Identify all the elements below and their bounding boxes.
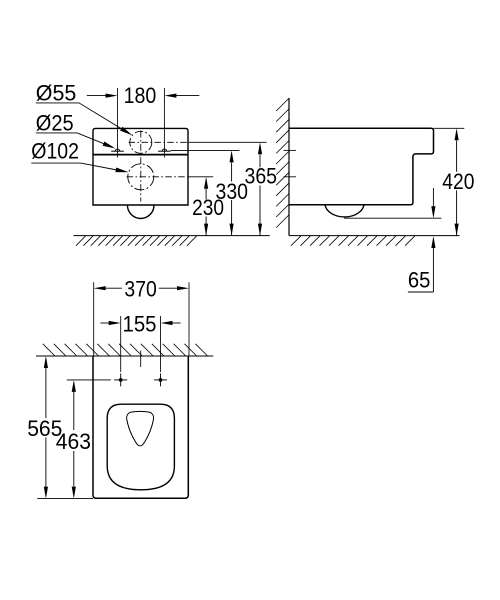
extension line left bolt (for 180) [117, 88, 119, 158]
extension line left bolt (155) [120, 316, 122, 372]
outlet bump (bottom arc) [127, 205, 154, 218]
reference line at bolts (463) [67, 379, 111, 381]
label Ø102 leader arrowhead [115, 168, 128, 173]
outlet height tick on wall [284, 176, 297, 178]
dimension 65 up arrow from below floor + leader [408, 248, 434, 292]
dimension 65 down arrow to outlet tangent [432, 188, 434, 206]
svg-text:Ø25: Ø25 [36, 111, 74, 136]
fixing bolt left (plan) [114, 373, 127, 386]
dimension 180 line right segment [176, 95, 199, 97]
outlet bottom tangent line (65 reference) [344, 217, 441, 219]
fixing bolt right (top view) [158, 149, 171, 151]
flush inlet (teardrop, plan) [127, 411, 154, 446]
dimension 370 line with outward arrows [106, 287, 177, 289]
svg-text:Ø55: Ø55 [36, 80, 77, 105]
WC body profile (side view) [289, 128, 434, 204]
floor line (left view) [73, 235, 269, 237]
reference line at bolt height (330) [171, 149, 240, 151]
dimension 365 vertical line with arrows [259, 155, 261, 236]
reference line at Ø102 centre height (230) [188, 176, 213, 178]
extension line right bolt (for 180) [163, 88, 165, 158]
dimension 230 down arrow at floor [204, 224, 208, 236]
dimension 230 vertical line upper part with up arrow [205, 189, 207, 236]
label Ø25 leader [36, 133, 105, 144]
fixing bolt left (top view) [111, 149, 124, 151]
svg-text:330: 330 [216, 179, 249, 204]
dimension 180 arrow right [164, 94, 176, 98]
fixing bolt right (plan) [154, 373, 167, 386]
label Ø55 leader (underline + slanted line) [36, 103, 124, 130]
dimension 420 vertical line with arrows [456, 141, 458, 236]
svg-text:155: 155 [123, 312, 157, 337]
centre tick at wall [140, 351, 142, 368]
floor hatching (left view) [76, 236, 197, 246]
floor hatching (right view) [291, 236, 415, 246]
WC body outline (top view) [93, 128, 188, 205]
wall hatching [276, 98, 289, 228]
rim/cistern divider line [93, 154, 188, 156]
dimension 330 vertical line with arrows [231, 163, 233, 236]
label Ø102 leader [31, 163, 117, 170]
wall face line [288, 98, 290, 236]
outlet bump (side view) [325, 205, 364, 217]
svg-text:180: 180 [124, 83, 157, 108]
floor line (right view) [289, 235, 460, 237]
supply height tick on wall [284, 149, 297, 151]
dimension 463 vertical line with arrows [73, 392, 75, 487]
extension line right bolt (155) [160, 316, 162, 372]
bowl outer rim (plan) [107, 404, 174, 490]
Ø55 centerline horizontal [129, 141, 188, 143]
dimension 155 outside arrows [100, 322, 180, 324]
dimension 180 arrow left [106, 94, 118, 98]
svg-text:Ø102: Ø102 [31, 138, 79, 163]
wall line (plan) [36, 355, 213, 357]
WC body outline (plan view) [93, 356, 188, 498]
extension line top of WC (420) [434, 127, 465, 129]
dimension 180 line left segment [87, 95, 106, 97]
extension line at WC front (565/463) [37, 498, 93, 500]
svg-text:365: 365 [245, 164, 278, 189]
svg-text:420: 420 [442, 169, 474, 194]
svg-text:65: 65 [408, 268, 431, 293]
label Ø25 leader arrowhead [103, 142, 116, 149]
hole Ø55 (dashed circle) [130, 131, 152, 153]
label Ø55 leader arrowhead [120, 127, 132, 136]
hole Ø102 (dashed circle) [128, 164, 154, 190]
wall hatching (plan) [43, 344, 208, 356]
svg-text:370: 370 [124, 277, 156, 302]
extension line right (370) [188, 282, 190, 356]
vertical centerline through both holes [140, 131, 142, 202]
svg-text:463: 463 [56, 429, 91, 454]
extension line left (370) [93, 282, 95, 356]
Ø102 centerline horizontal [127, 176, 188, 178]
dimension 565 vertical line with arrows [45, 368, 47, 487]
reference line at Ø55 centre height (365) [188, 141, 267, 143]
